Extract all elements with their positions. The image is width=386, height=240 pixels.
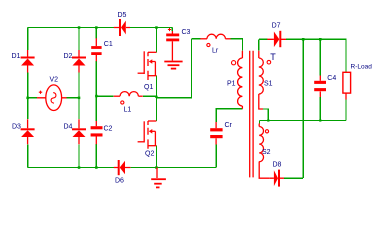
svg-text:C4: C4 — [327, 75, 336, 82]
svg-text:T: T — [270, 52, 276, 62]
svg-text:Q1: Q1 — [144, 84, 153, 91]
svg-text:V2: V2 — [50, 77, 59, 84]
svg-text:D4: D4 — [64, 124, 73, 131]
svg-text:D7: D7 — [272, 23, 281, 30]
svg-text:R-Load: R-Load — [351, 63, 373, 70]
svg-text:C2: C2 — [104, 126, 113, 133]
svg-text:C3: C3 — [182, 29, 191, 36]
svg-text:D8: D8 — [273, 162, 282, 169]
svg-text:L1: L1 — [124, 107, 132, 114]
svg-text:S1: S1 — [264, 81, 273, 88]
svg-text:D6: D6 — [115, 178, 124, 185]
svg-text:P1: P1 — [227, 81, 236, 88]
svg-text:C1: C1 — [104, 41, 113, 48]
svg-text:Lr: Lr — [212, 48, 219, 55]
svg-text:D5: D5 — [118, 12, 127, 19]
svg-text:D1: D1 — [12, 53, 21, 60]
svg-text:S2: S2 — [262, 149, 271, 156]
svg-text:D3: D3 — [12, 124, 21, 131]
svg-text:D2: D2 — [64, 53, 73, 60]
svg-text:Cr: Cr — [225, 122, 233, 129]
svg-text:Q2: Q2 — [145, 151, 154, 158]
